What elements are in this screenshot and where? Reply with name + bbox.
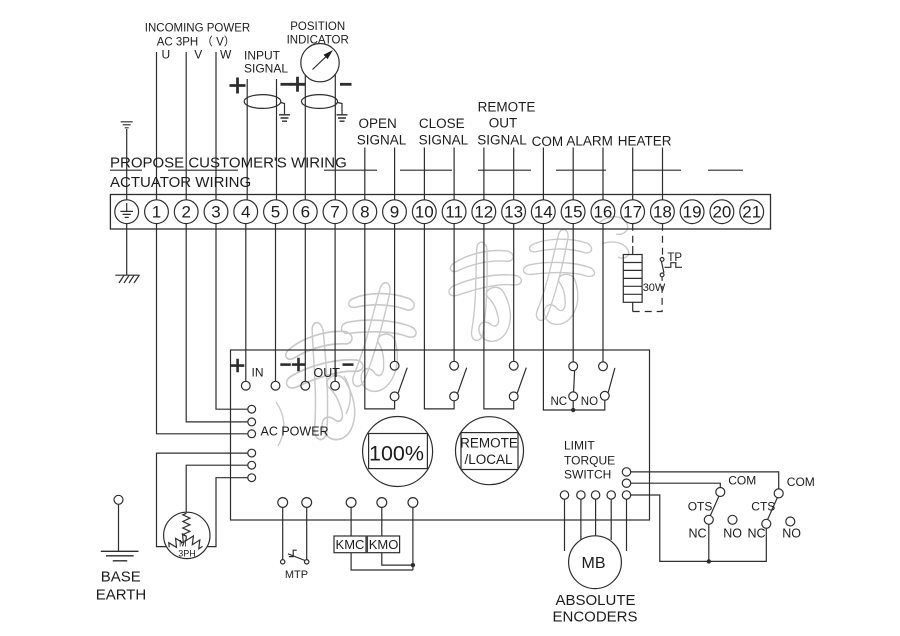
wire: motor W [207,478,248,547]
terminal circle OUT+ [301,381,310,390]
ground tap of input signal ellipse [279,103,290,122]
svg-text:NO: NO [581,396,598,408]
wire: terminal 12 down into remote switch bracket [484,224,514,409]
svg-text:REMOTE: REMOTE [478,99,536,114]
svg-text:SIGNAL: SIGNAL [419,133,469,148]
wire: motor V [186,465,248,512]
watermark glyphs [276,217,629,447]
KMO contactor box [367,507,399,552]
svg-text:3: 3 [211,203,220,222]
junction dot KMO [411,563,415,567]
svg-text:EARTH: EARTH [96,587,147,604]
svg-text:TORQUE: TORQUE [564,454,615,468]
svg-text:11: 11 [445,203,463,222]
wire: terminal 17 upper [632,148,634,200]
wire: terminal 13 upper [513,148,515,200]
svg-text:W: W [220,48,232,62]
wires from LTS to OTS/CTS [631,472,779,489]
wire: encoder line down [412,507,414,570]
wire: terminal 1 to U (incoming power) [156,52,158,200]
terminal 7 [323,200,347,224]
wire: KMO bottom loop [382,553,413,565]
box bottom terminals [278,498,418,508]
svg-text:ALARM: ALARM [566,134,613,149]
heater resistor 30W [623,255,642,303]
wire: terminal 18 upper [662,148,664,200]
plus sign (position indicator +) [290,77,305,92]
wire: terminal 15 down to NC contact [572,224,574,362]
svg-text:IN: IN [252,366,264,380]
svg-text:21: 21 [742,203,761,222]
svg-text:7: 7 [330,203,339,222]
wire: terminal 18 dashed down to TP [662,224,664,258]
wire: terminal 8 upper [364,148,366,200]
plus sign (input signal +) [230,78,246,94]
wires from limit switch terminals down to MB [564,499,566,551]
ground tap of position indicator ellipse [337,103,348,122]
plus sign (OUT +) [292,358,306,372]
current loop ellipse (input signal) [244,95,281,109]
svg-text:100%: 100% [369,442,424,466]
svg-text:5: 5 [271,203,280,222]
wire: terminal 5 (- input) [276,79,278,200]
wire: earth terminal down [126,224,128,276]
wire: resistor bottom dashed to TP [632,302,634,311]
svg-text:KMC: KMC [336,537,365,552]
wire: motor U [157,453,248,546]
svg-text:MB: MB [582,555,606,572]
minus sign (OUT -) [343,363,354,366]
remote/local selector [456,417,524,485]
svg-text:BASE: BASE [101,569,141,586]
svg-text:POSITION: POSITION [290,21,345,33]
svg-text:NC: NC [748,526,766,540]
wire: terminal 15 upper [572,148,574,200]
svg-text:CTS: CTS [751,499,775,513]
terminal 21 [740,200,764,224]
svg-text:2: 2 [181,203,190,222]
minus sign (position indicator -) [340,83,352,86]
plus sign (IN +) [231,359,245,373]
minus sign (input signal -) [281,83,292,86]
svg-text:ENCODERS: ENCODERS [552,609,637,626]
svg-text:KMO: KMO [369,537,399,552]
svg-text:18: 18 [653,203,672,222]
divider dashed line between customer and actuator wiring [110,169,743,171]
wire: terminal 11 upper [453,148,455,200]
terminal 1 [145,200,169,224]
wire: terminal 13 down to remote switch contact [513,224,515,362]
terminal 11 [442,200,466,224]
CTS switch [762,489,795,528]
svg-text:INCOMING POWER: INCOMING POWER [145,23,250,35]
svg-text:17: 17 [623,203,642,222]
svg-text:/LOCAL: /LOCAL [464,452,513,467]
svg-text:1: 1 [152,203,161,222]
svg-text:AC POWER: AC POWER [261,424,329,438]
terminal 18 [651,200,675,224]
terminal strip box [110,195,770,230]
svg-text:8: 8 [360,203,369,222]
terminal circle IN+ [241,381,250,390]
terminal 5 [264,200,288,224]
svg-text:HEATER: HEATER [618,134,672,149]
svg-text:U: U [162,48,171,62]
svg-text:COM: COM [532,134,564,149]
svg-text:OTS: OTS [688,499,713,513]
close signal switch [450,361,467,400]
terminal 14 [531,200,555,224]
svg-text:9: 9 [390,203,399,222]
svg-text:COM: COM [728,473,756,487]
alarm NC contact [569,362,578,410]
svg-text:19: 19 [683,203,702,222]
wire: terminal 6 (+ indicator) [304,75,306,200]
wire: terminal 11 down to close switch contact [453,224,455,362]
wire: KMC bottom loop [351,553,413,570]
wire: terminal 1 down to AC power [157,224,248,434]
svg-text:NC: NC [551,396,568,408]
svg-text:INDICATOR: INDICATOR [287,35,349,47]
svg-text:SIGNAL: SIGNAL [244,62,288,76]
terminal 20 [710,200,734,224]
svg-text:6: 6 [301,203,310,222]
svg-text:INPUT: INPUT [244,49,281,63]
wire: terminal 3 to W [215,52,217,200]
svg-text:OUT: OUT [314,366,341,380]
svg-text:15: 15 [564,203,583,222]
open signal switch [390,361,407,400]
svg-text:COM: COM [787,475,815,489]
position indicator gauge [301,44,339,82]
wire: terminal 3 down to AC power [216,224,248,410]
terminal 13 [502,200,526,224]
current loop ellipse (position indicator) [302,95,338,109]
svg-text:ABSOLUTE: ABSOLUTE [555,592,635,609]
svg-text:OUT: OUT [489,116,518,131]
wire: terminal 16 upper [602,148,604,200]
svg-text:LIMIT: LIMIT [564,439,595,453]
motor M 3PH [164,512,210,558]
terminal 17 [621,200,645,224]
KMC contactor box [334,507,366,552]
svg-text:V: V [194,48,202,62]
wire: terminal 10 upper [423,148,425,200]
actuator main box [231,350,650,520]
terminal 15 [561,200,585,224]
terminal circle OUT- [331,381,340,390]
svg-text:4: 4 [241,203,250,222]
wire: terminal 6 down to OUT+ [304,224,306,382]
terminal 19 [680,200,704,224]
terminal 2 [174,200,198,224]
wire: terminal 8 down into open switch bracket [365,224,395,409]
earth terminal [115,200,139,224]
wire: terminal 9 down to open switch contact [394,224,396,362]
terminal 8 [353,200,377,224]
wire: terminal 2 down to AC power [186,224,248,422]
alarm NO contact [599,362,615,400]
limit torque switch terminals [560,468,630,500]
svg-text:NO: NO [782,526,801,540]
wire: terminal 17 dashed down [632,224,634,246]
junction dot alarm [571,408,575,412]
OTS switch [704,488,737,562]
BASE EARTH [101,495,139,561]
wire: terminal 5 down to IN- [275,224,277,382]
svg-text:10: 10 [415,203,434,222]
svg-text:TP: TP [667,252,682,264]
svg-text:20: 20 [712,203,731,222]
terminal 10 [412,200,436,224]
svg-text:SIGNAL: SIGNAL [357,133,407,148]
svg-text:REMOTE: REMOTE [460,435,518,450]
junction dot bottom [707,559,711,563]
svg-text:M: M [179,538,187,548]
svg-text:MTP: MTP [285,569,308,581]
terminal 6 [293,200,317,224]
svg-text:NC: NC [689,526,707,540]
MB absolute encoder [569,536,622,589]
svg-text:14: 14 [534,203,553,222]
terminal 9 [383,200,407,224]
terminal 16 [591,200,615,224]
svg-text:OPEN: OPEN [358,116,396,131]
terminal 12 [472,200,496,224]
minus sign (IN -) [280,363,291,366]
wire: terminal 4 (+ input) [246,79,248,200]
wire: terminal 7 (- indicator) [334,75,336,200]
MTP thermal switch [281,507,309,564]
terminal 3 [204,200,228,224]
svg-text:SIGNAL: SIGNAL [477,133,527,148]
wire: terminal 14 upper [542,148,544,200]
svg-text:ACTUATOR WIRING: ACTUATOR WIRING [110,174,251,191]
svg-text:CLOSE: CLOSE [419,116,465,131]
chassis ground below strip [115,275,140,283]
svg-text:NO: NO [723,526,742,540]
earth symbol top-left [121,122,133,200]
svg-text:13: 13 [504,203,523,222]
wire: terminal 14 down into alarm bracket [543,224,604,410]
terminal 4 [234,200,258,224]
svg-text:PROPOSE CUSTOMER'S WIRING: PROPOSE CUSTOMER'S WIRING [110,154,347,171]
remote out switch [509,361,526,400]
wire: terminal 2 to V [185,52,187,200]
wire: terminal 16 down to NO contact [602,224,604,362]
wire: terminal 9 upper [394,148,396,200]
AC power terminals [248,405,256,481]
wire: terminal 7 down to OUT- [334,224,336,382]
wire: terminal 4 down to IN+ [245,224,247,382]
svg-text:SWITCH: SWITCH [564,468,611,482]
svg-text:12: 12 [474,203,493,222]
terminal circle IN- [271,381,280,390]
100% indicator [363,417,433,487]
thermal protector TP [660,258,682,277]
wire: terminal 12 upper [483,148,485,200]
wire: terminal 10 down into close switch bracket [424,224,454,409]
svg-text:16: 16 [593,203,612,222]
svg-text:3PH: 3PH [178,548,196,558]
